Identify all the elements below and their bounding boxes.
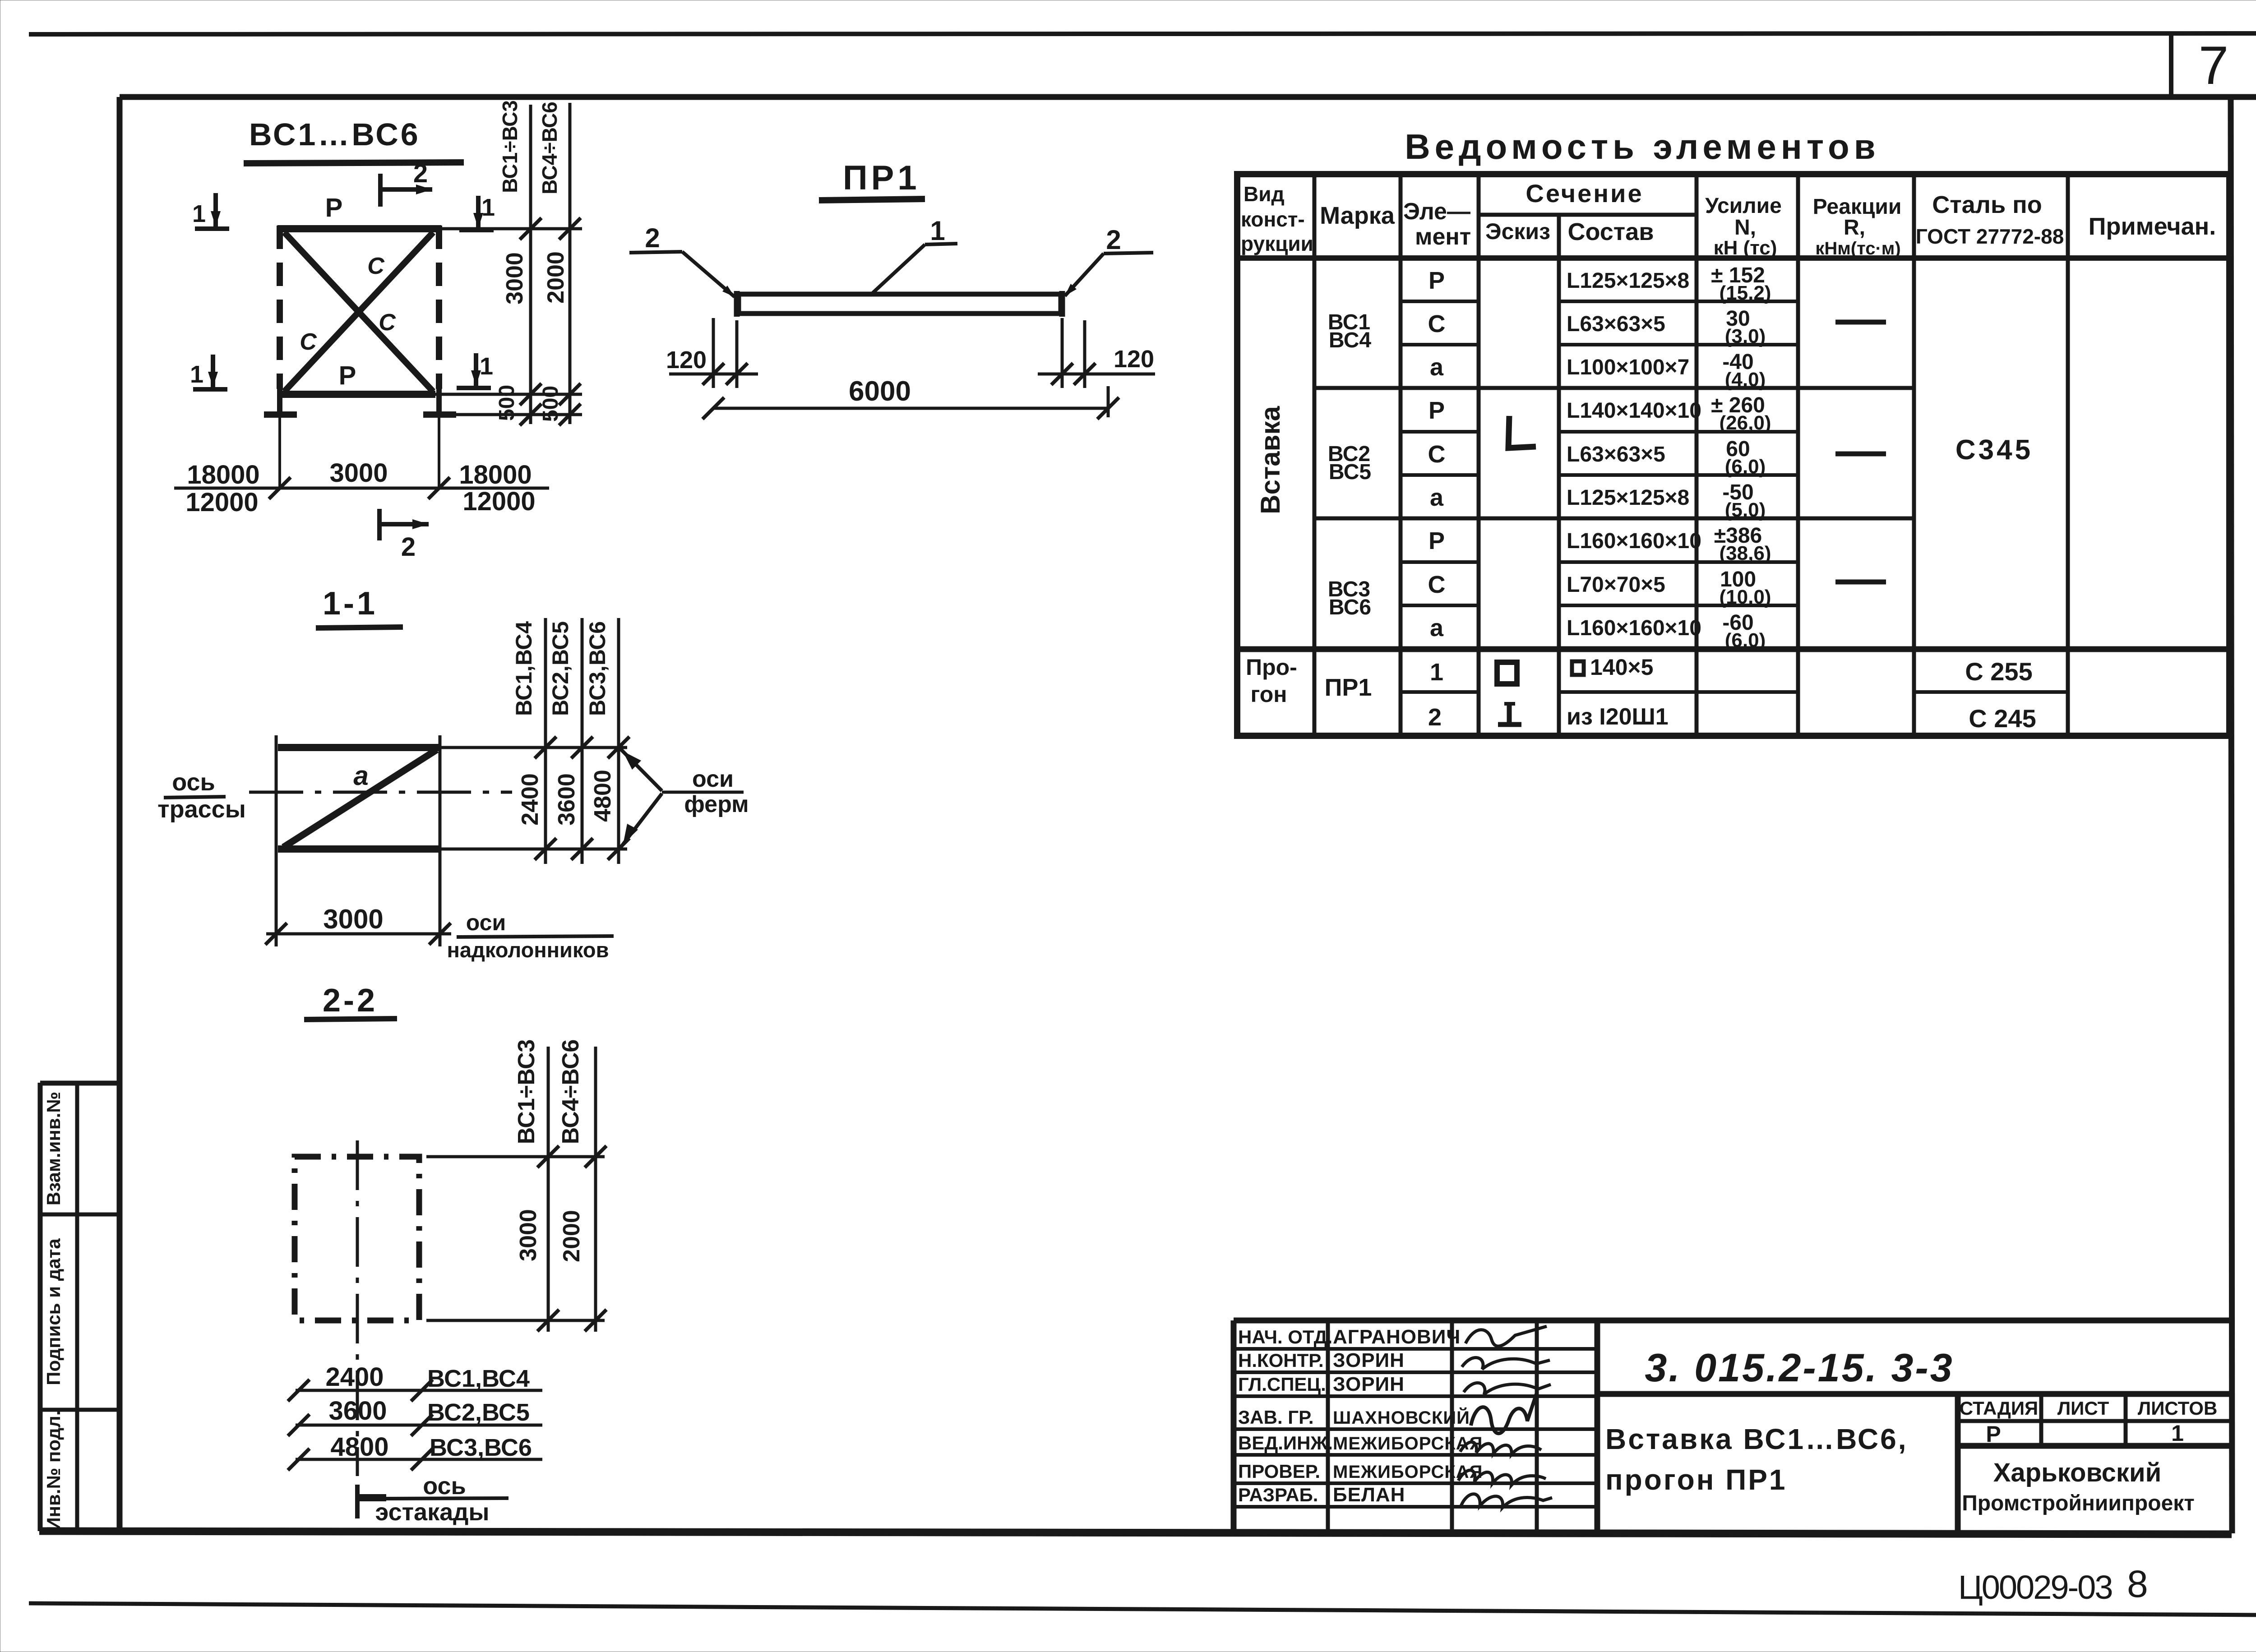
svg-text:3000: 3000 [329,458,388,488]
svg-text:(6,0): (6,0) [1725,456,1766,478]
svg-text:Харьковский: Харьковский [1993,1458,2162,1487]
svg-text:2400: 2400 [517,773,543,826]
svg-text:мент: мент [1415,224,1471,250]
svg-text:ВС1,ВС4: ВС1,ВС4 [427,1365,530,1392]
svg-text:БЕЛАН: БЕЛАН [1333,1484,1405,1506]
svg-text:Усилие: Усилие [1705,194,1782,218]
svg-text:ВЕД.ИНЖ.: ВЕД.ИНЖ. [1238,1432,1333,1454]
svg-text:оси: оси [692,766,734,792]
svg-text:(5,0): (5,0) [1725,499,1766,521]
svg-text:ВС3,ВС6: ВС3,ВС6 [585,621,610,716]
svg-text:3000: 3000 [515,1209,541,1261]
stamp box column [38,1083,43,1531]
left end plate [734,291,740,317]
svg-text:L160×160×10: L160×160×10 [1567,529,1701,553]
svg-text:ГОСТ 27772-88: ГОСТ 27772-88 [1916,225,2064,248]
svg-text:а: а [1430,354,1444,381]
svg-text:ВС1÷ВС3: ВС1÷ВС3 [498,100,522,193]
svg-text:прогон ПР1: прогон ПР1 [1605,1463,1787,1496]
эскиз tee symbol [1507,704,1512,724]
эскиз angle symbol L [1508,416,1536,448]
section mark 1 top-right [476,196,481,228]
svg-text:1: 1 [190,361,203,388]
эстакада axis vertical [356,1140,359,1476]
svg-text:ЛИСТ: ЛИСТ [2057,1398,2109,1419]
svg-text:ВС1…ВС6: ВС1…ВС6 [249,117,421,152]
svg-text:ВС6: ВС6 [1329,595,1371,619]
svg-text:а: а [353,761,368,791]
svg-text:ПРОВЕР.: ПРОВЕР. [1238,1461,1320,1482]
svg-text:Р: Р [325,193,343,222]
dim row 3600 BC2,BC5 [296,1424,542,1427]
sheet bottom edge line [29,1603,2256,1615]
diagonal C rising [284,232,433,392]
svg-text:ВС4÷ВС6: ВС4÷ВС6 [558,1039,584,1144]
section mark 1 bottom-right [474,353,478,386]
svg-text:ВС2,ВС5: ВС2,ВС5 [427,1399,530,1426]
svg-text:2400: 2400 [325,1362,384,1392]
svg-text:кН (тс): кН (тс) [1714,237,1777,259]
lower extension line [439,848,627,851]
svg-text:8: 8 [2127,1563,2148,1605]
signatures [1465,1326,1547,1346]
svg-text:L125×125×8: L125×125×8 [1567,269,1689,293]
svg-text:из I20Ш1: из I20Ш1 [1567,704,1669,730]
doc number cell line [1597,1391,2231,1397]
svg-text:1: 1 [480,353,493,380]
svg-text:ВС3,ВС6: ВС3,ВС6 [430,1434,532,1461]
svg-text:2-2: 2-2 [323,983,378,1019]
svg-text:Ц00029-03: Ц00029-03 [1958,1569,2112,1606]
svg-text:кНм(тс·м): кНм(тс·м) [1815,239,1900,258]
svg-text:ВС4: ВС4 [1329,328,1372,352]
svg-text:АГРАНОВИЧ: АГРАНОВИЧ [1333,1326,1461,1348]
svg-text:Инв.№ подл.: Инв.№ подл. [43,1410,64,1531]
section mark 1 bottom-left [211,355,215,387]
svg-text:3600: 3600 [328,1396,387,1426]
svg-text:Р: Р [1428,527,1445,554]
dim row 2400 BC1,BC4 [296,1389,542,1392]
оси ферм pointer [620,749,662,791]
svg-text:12000: 12000 [185,488,258,517]
svg-text:Р: Р [1428,267,1445,294]
top chord P [277,225,441,232]
svg-text:4800: 4800 [330,1432,388,1462]
svg-text:Р: Р [1986,1421,2001,1447]
bottom chord P [279,391,435,398]
svg-text:L140×140×10: L140×140×10 [1567,399,1701,423]
sostav square 140x5 [1572,661,1584,675]
svg-text:(38,6): (38,6) [1720,542,1771,564]
svg-text:ВС1÷ВС3: ВС1÷ВС3 [513,1039,540,1144]
bottom dimension line [174,487,549,490]
svg-text:3. 015.2-15. 3-3: 3. 015.2-15. 3-3 [1645,1345,1954,1390]
left column base [264,411,297,418]
bottom extension [426,1319,605,1322]
svg-text:СТАДИЯ: СТАДИЯ [1960,1398,2038,1419]
svg-text:ось: ось [423,1472,466,1500]
svg-text:Сталь по: Сталь по [1932,191,2042,218]
svg-text:С345: С345 [1956,434,2033,466]
svg-text:Состав: Состав [1568,218,1654,245]
diagonal a [283,750,437,847]
svg-text:1: 1 [192,200,206,227]
svg-text:R,: R, [1844,216,1865,240]
svg-text:1: 1 [1430,659,1443,686]
svg-text:L70×70×5: L70×70×5 [1567,573,1665,597]
section mark 2 bottom [377,509,382,540]
svg-text:ВС5: ВС5 [1329,460,1371,484]
svg-text:12000: 12000 [462,487,535,516]
svg-text:1: 1 [930,216,945,246]
svg-text:ГЛ.СПЕЦ.: ГЛ.СПЕЦ. [1238,1374,1326,1395]
эскиз square symbol [1497,662,1517,684]
svg-text:7: 7 [2199,35,2229,96]
section mark 1 top-left [213,193,218,226]
signature columns [1326,1320,1330,1532]
svg-text:1: 1 [481,194,495,221]
svg-text:Про-: Про- [1246,655,1297,680]
svg-text:4800: 4800 [590,770,616,822]
svg-text:2: 2 [645,223,660,253]
svg-text:ЛИСТОВ: ЛИСТОВ [2138,1398,2218,1419]
table column lines [1313,174,1317,736]
table outer border [1237,174,2229,736]
group lines marka/reaktsii [1314,386,1914,390]
dim 6000 [1107,386,1110,417]
svg-text:Вид: Вид [1244,182,1285,206]
diagonal C falling [284,232,433,392]
svg-text:L160×160×10: L160×160×10 [1567,616,1701,640]
svg-text:3000: 3000 [502,252,528,305]
svg-text:Подпись и дата: Подпись и дата [43,1238,64,1385]
svg-text:1-1: 1-1 [323,586,378,622]
реакции dash 2 [1835,452,1886,457]
svg-text:L100×100×7: L100×100×7 [1567,355,1689,379]
svg-text:Ведомость элементов: Ведомость элементов [1405,127,1880,166]
svg-text:L125×125×8: L125×125×8 [1567,486,1689,510]
svg-text:С: С [367,253,385,279]
svg-text:120: 120 [1114,346,1154,373]
svg-text:надколонников: надколонников [447,938,609,962]
svg-text:2: 2 [1428,704,1442,731]
svg-text:120: 120 [666,346,707,374]
svg-text:2: 2 [413,159,428,188]
svg-text:ШАХНОВСКИЙ: ШАХНОВСКИЙ [1333,1407,1470,1428]
table header lines [1479,213,1697,217]
svg-text:2000: 2000 [543,251,569,304]
svg-text:а: а [1430,614,1444,641]
svg-text:18000: 18000 [187,460,259,489]
section mark 2 top [378,174,383,207]
svg-text:эстакады: эстакады [375,1499,489,1526]
dim 120 right [1061,318,1064,388]
ось эстакады mark [355,1485,360,1518]
ось трассы axis line [249,791,512,794]
svg-text:трассы: трассы [157,796,246,823]
svg-text:С: С [1428,571,1446,598]
svg-text:ферм: ферм [684,791,749,817]
svg-text:2000: 2000 [559,1210,585,1262]
стадия table [1955,1394,1961,1532]
svg-text:оси: оси [466,910,506,935]
svg-text:Р: Р [1428,397,1445,424]
svg-text:С: С [1428,310,1446,337]
dim line BC1-BC3 [547,1047,550,1332]
svg-text:ВС1,ВС4: ВС1,ВС4 [511,621,536,716]
svg-text:гон: гон [1251,682,1287,707]
svg-text:2: 2 [1106,225,1121,255]
right extension lines [441,227,582,231]
svg-text:ЗОРИН: ЗОРИН [1333,1349,1405,1371]
svg-text:500: 500 [495,385,519,421]
svg-text:ПР1: ПР1 [843,159,920,197]
svg-text:18000: 18000 [459,460,532,489]
svg-text:3000: 3000 [323,904,383,934]
upper extension line [439,746,627,749]
svg-text:С: С [1428,441,1446,468]
svg-text:Марка: Марка [1320,202,1395,229]
svg-text:С 245: С 245 [1969,704,2036,733]
dim row 4800 BC3,BC6 [296,1458,542,1461]
svg-text:ЗОРИН: ЗОРИН [1333,1373,1405,1395]
svg-text:С: С [379,309,396,336]
ферм axis BC1,BC4 [544,618,547,864]
svg-text:ПР1: ПР1 [1325,674,1372,701]
right column base [423,411,456,418]
svg-text:(6,0): (6,0) [1725,629,1766,651]
svg-text:С 255: С 255 [1965,657,2032,686]
svg-text:2: 2 [401,532,416,562]
svg-text:а: а [1430,484,1444,511]
right надколонник axis [439,735,442,946]
title block outline [1234,1318,2231,1324]
svg-text:Взам.инв.№: Взам.инв.№ [43,1092,64,1205]
svg-text:(15,2): (15,2) [1720,282,1771,304]
svg-text:(10,0): (10,0) [1720,586,1771,608]
purlin PR1 body [739,294,1061,314]
svg-text:ВС2,ВС5: ВС2,ВС5 [548,621,573,716]
svg-text:ось: ось [172,769,215,796]
right end plate [1059,291,1065,317]
svg-text:500: 500 [539,386,563,422]
svg-text:L63×63×5: L63×63×5 [1567,443,1665,466]
svg-text:рукции: рукции [1241,232,1313,255]
svg-text:Эскиз: Эскиз [1485,219,1550,244]
right dimension line BC1-BC3 [529,208,532,424]
bottom chord [278,845,439,853]
svg-text:6000: 6000 [849,376,911,407]
svg-text:140×5: 140×5 [1590,655,1653,680]
svg-text:НАЧ. ОТД.: НАЧ. ОТД. [1238,1326,1332,1347]
svg-text:(26,0): (26,0) [1720,412,1771,434]
sheet top edge line [29,33,2256,34]
svg-text:(3,0): (3,0) [1725,325,1766,347]
svg-text:3600: 3600 [554,773,580,826]
прогон row divider [1401,690,1479,694]
svg-text:ВС4÷ВС6: ВС4÷ВС6 [538,102,561,194]
реакции dash 3 [1835,580,1886,585]
svg-text:Р: Р [339,361,356,390]
dim 120 left [712,318,715,388]
ферм axis BC3,BC6 [617,618,620,864]
row lines element/sostav/usilie [1401,300,1479,303]
drawing frame [120,94,2256,100]
svg-text:Эле—: Эле— [1403,198,1470,225]
svg-text:1: 1 [2171,1421,2184,1446]
svg-text:(4,0): (4,0) [1725,369,1766,391]
svg-text:Промстройниипроект: Промстройниипроект [1962,1491,2195,1515]
svg-text:Вставка ВС1…ВС6,: Вставка ВС1…ВС6, [1605,1423,1908,1455]
svg-text:ЗАВ. ГР.: ЗАВ. ГР. [1238,1407,1314,1428]
dim line BC4-BC6 [594,1047,597,1332]
svg-text:Примечан.: Примечан. [2089,213,2216,240]
dim 3000 bottom [266,932,451,936]
right column (dashed) [436,226,442,389]
left надколонник axis [275,735,278,946]
svg-text:L63×63×5: L63×63×5 [1567,312,1665,336]
svg-text:РАЗРАБ.: РАЗРАБ. [1238,1484,1318,1505]
svg-text:С: С [300,329,317,355]
svg-text:Сечение: Сечение [1526,179,1643,208]
svg-text:конст-: конст- [1241,208,1305,231]
реакции dash 1 [1835,320,1886,325]
right dimension line BC4-BC6 [569,208,572,424]
left column (dashed) [277,226,283,389]
sheet number box [2169,34,2173,97]
top extension [426,1155,605,1158]
svg-text:N,: N, [1734,216,1756,240]
svg-text:Вставка: Вставка [1255,406,1285,514]
top chord [278,744,439,751]
signature rows [1234,1347,1597,1351]
ферм axis BC2,BC5 [581,618,584,864]
прогон thick line [1237,646,2229,652]
svg-text:Н.КОНТР.: Н.КОНТР. [1238,1350,1324,1371]
column contour dash-dot [295,1157,419,1320]
